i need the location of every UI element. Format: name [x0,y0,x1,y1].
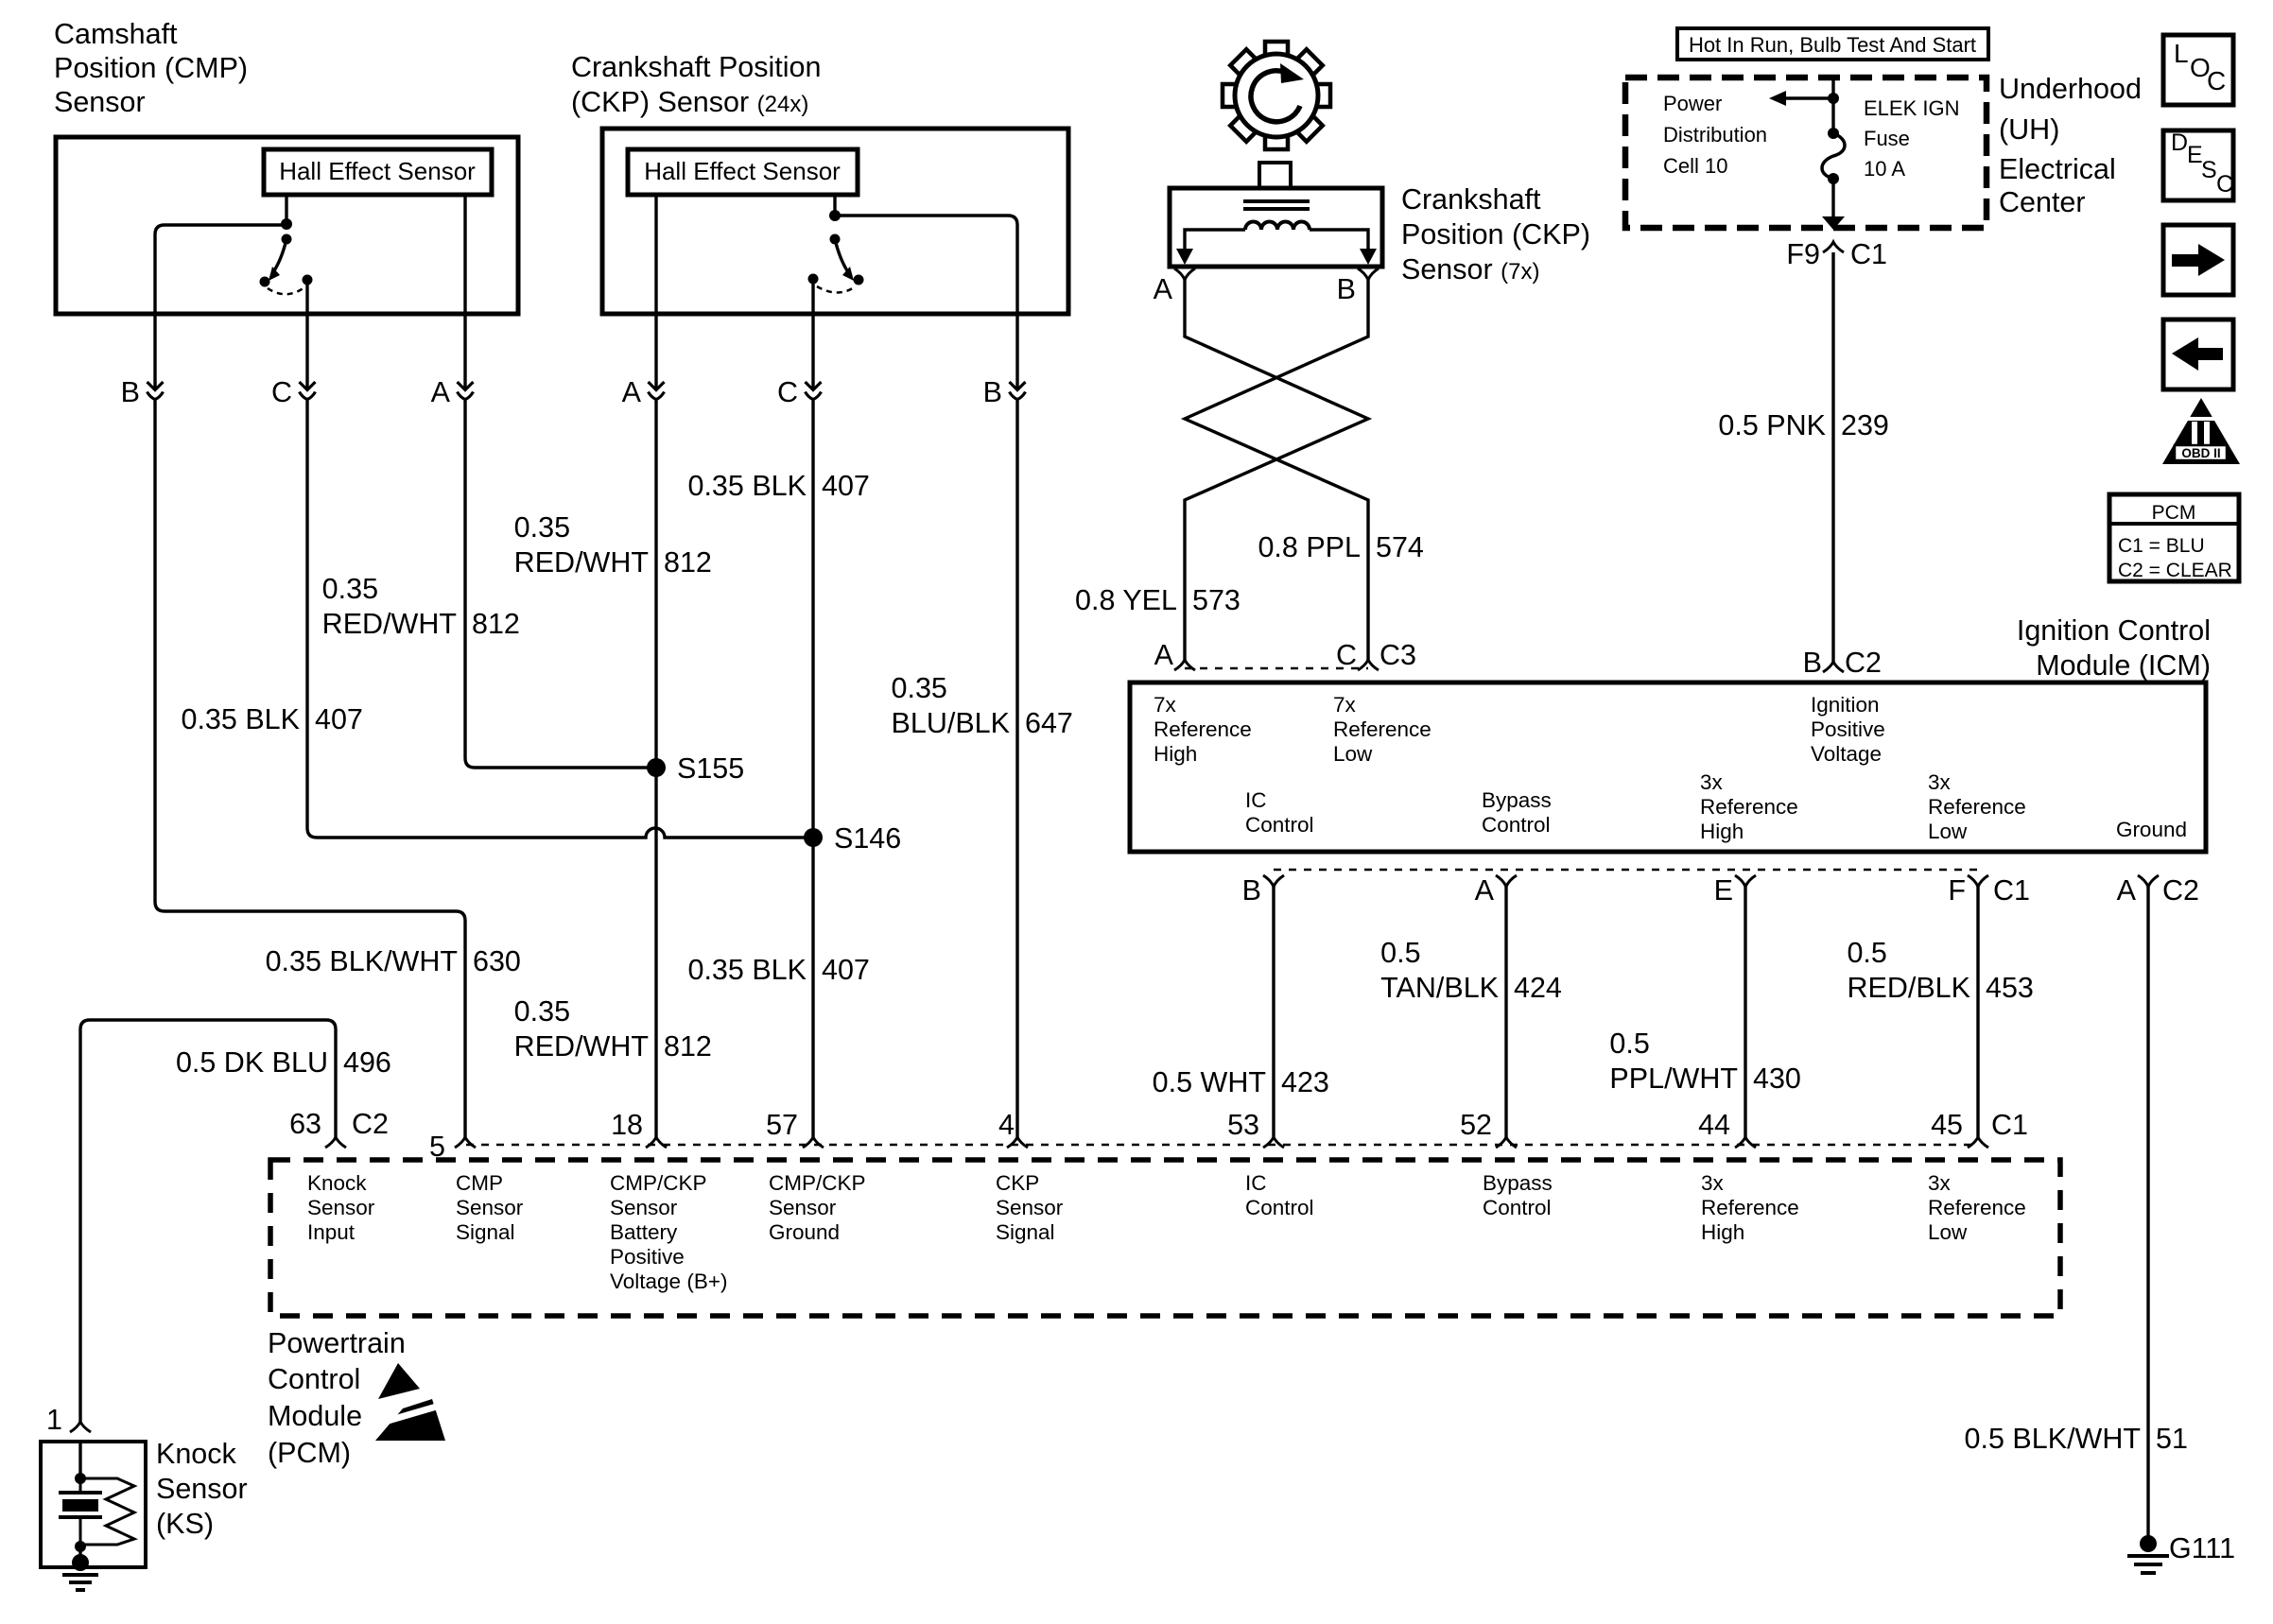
svg-text:Hot In Run, Bulb Test And Star: Hot In Run, Bulb Test And Start [1689,33,1976,57]
wire 630 BLK/WHT (CMP B to PCM 5) [155,400,465,1138]
svg-text:0.5 DK BLU: 0.5 DK BLU [176,1046,328,1079]
svg-text:57: 57 [766,1109,798,1141]
KS ground symbol [62,1573,98,1577]
wire 573 YEL (7x A) [1185,280,1368,660]
svg-text:0.35: 0.35 [514,995,570,1028]
CKP pin B connector [1010,382,1026,390]
svg-text:C1: C1 [1991,1109,2028,1141]
CKP 7x reluctor gear teeth [1265,42,1288,56]
node CMP switch contact right [303,275,313,285]
svg-text:C1: C1 [1993,874,2030,907]
ICM pin E bottom [1735,875,1756,887]
svg-text:(CKP) Sensor (24x): (CKP) Sensor (24x) [571,86,808,118]
wire hall to switch (CKP) [833,195,836,211]
svg-text:C: C [271,376,292,408]
wire 647 BLU/BLK (CKP B to PCM 4) [1015,400,1018,1138]
svg-text:C1 = BLU: C1 = BLU [2118,535,2205,557]
svg-text:S: S [2201,157,2217,183]
svg-text:F: F [1948,874,1966,907]
wire fuse to connector [1831,179,1834,216]
svg-text:812: 812 [472,608,520,640]
svg-text:Electrical: Electrical [1999,153,2116,185]
crankshaft position sensor CKP box [602,129,1068,314]
svg-text:G111: G111 [2169,1532,2235,1564]
svg-text:(UH): (UH) [1999,113,2059,146]
svg-text:C2: C2 [352,1108,389,1140]
svg-text:Knock: Knock [156,1438,237,1470]
svg-text:A: A [1154,273,1173,305]
svg-text:C2: C2 [1845,647,1882,679]
wire CMP pin A upper [463,195,466,389]
svg-text:A: A [1154,639,1174,671]
svg-text:630: 630 [473,945,521,977]
svg-text:(PCM): (PCM) [268,1437,351,1469]
svg-text:PCM: PCM [2152,502,2196,524]
svg-text:0.35 BLK/WHT: 0.35 BLK/WHT [266,945,458,977]
svg-text:63: 63 [289,1108,321,1140]
CKP 7x wire left [1185,230,1245,250]
CKP 7x wire right [1310,230,1368,250]
wire hall to switch (CMP) [285,195,287,219]
svg-text:Module: Module [268,1400,362,1432]
CKP 7x coil [1245,222,1310,231]
svg-text:C2: C2 [2162,874,2199,907]
svg-text:RED/WHT: RED/WHT [514,546,649,579]
CKP pin C connector [806,382,822,390]
svg-text:Powertrain: Powertrain [268,1327,406,1359]
PCM connector dashed line C1 [466,1144,1978,1147]
svg-text:C3: C3 [1379,639,1416,671]
CMP switch dashed arc [268,287,304,294]
svg-text:Crankshaft: Crankshaft [1401,183,1541,216]
Hot In Run Bulb Test And Start box [1677,28,1988,60]
svg-text:C: C [777,376,798,408]
svg-text:812: 812 [664,546,712,579]
svg-text:Sensor: Sensor [54,86,146,118]
svg-text:0.35 BLK: 0.35 BLK [688,954,807,986]
svg-text:0.35: 0.35 [514,511,570,544]
node S155 [647,758,666,777]
node fuse feed junction [1828,93,1839,104]
CMP pin C connector [300,382,316,390]
svg-text:L: L [2174,39,2189,68]
svg-text:18: 18 [611,1109,643,1141]
svg-text:A: A [431,376,451,408]
svg-text:496: 496 [343,1046,391,1079]
svg-text:812: 812 [664,1030,712,1063]
node KS top junction [75,1473,86,1484]
wire CMP junction to pin B [155,225,286,389]
KS resistor [80,1478,134,1545]
svg-text:RED/BLK: RED/BLK [1847,972,1970,1004]
CKP 7x rotation arrow [1251,71,1300,122]
knock sensor KS box [41,1442,146,1567]
node CKP switch junction [829,210,841,221]
CMP pin A connector [458,382,474,390]
svg-text:574: 574 [1376,531,1424,563]
svg-text:IgnitionPositiveVoltage: IgnitionPositiveVoltage [1811,693,1885,766]
wire 453 RED/BLK (ICM F to PCM 45) [1976,887,1979,1137]
svg-text:0.8 PPL: 0.8 PPL [1258,531,1361,563]
svg-text:0.5 WHT: 0.5 WHT [1153,1066,1266,1098]
node CMP switch junction [281,218,292,230]
ICM pin B bottom [1263,875,1284,887]
svg-text:45: 45 [1931,1109,1963,1141]
svg-text:B: B [1337,273,1356,305]
ICM pin A C2 bottom [2138,875,2159,887]
svg-text:51: 51 [2156,1423,2188,1455]
PCM legend box [2109,494,2239,581]
svg-text:647: 647 [1025,707,1073,739]
DESC icon [2163,130,2233,200]
CKP 7x core lines [1243,199,1310,203]
svg-text:44: 44 [1698,1109,1730,1141]
crankshaft position sensor 7x box [1170,188,1382,267]
svg-text:4: 4 [998,1109,1015,1141]
svg-text:573: 573 [1192,584,1241,616]
wire CKP pin A upper [654,195,657,389]
svg-text:Hall Effect Sensor: Hall Effect Sensor [644,157,841,185]
svg-text:A: A [2117,874,2137,907]
node KS bottom junction [75,1541,86,1552]
svg-text:Hall Effect Sensor: Hall Effect Sensor [279,157,476,185]
wire 51 BLK/WHT (ICM A to G111) [2146,887,2149,1536]
svg-text:C2 = CLEAR: C2 = CLEAR [2118,560,2232,581]
svg-text:407: 407 [822,470,870,502]
powertrain control module PCM dashed box [270,1160,2060,1316]
wire 574 PPL (7x B) [1185,280,1368,660]
node CKP switch contact right [854,275,864,285]
node CMP switch contact left [260,277,270,287]
wire 239 PNK (fuse to ICM B) [1831,252,1834,662]
svg-text:424: 424 [1514,972,1562,1004]
CMP pin B connector [147,382,164,390]
CKP pin A connector [649,382,665,390]
wire 496 DK BLU (KS to PCM 63) [80,1020,336,1422]
fuse ELEK IGN F9 [1828,128,1839,139]
svg-text:S155: S155 [677,752,744,785]
svg-text:Ignition Control: Ignition Control [2017,614,2211,647]
svg-text:A: A [622,376,642,408]
svg-text:E: E [1714,874,1733,907]
svg-text:Underhood: Underhood [1999,73,2142,105]
wire fuse feed [1831,78,1834,129]
connector F9 C1 [1823,242,1844,252]
svg-text:RED/WHT: RED/WHT [514,1030,649,1063]
wire 424 TAN/BLK (ICM A to PCM 52) [1504,887,1507,1137]
svg-text:A: A [1475,874,1495,907]
svg-text:S146: S146 [834,822,901,855]
svg-text:407: 407 [315,703,363,735]
svg-text:TAN/BLK: TAN/BLK [1380,972,1499,1004]
svg-text:0.35 BLK: 0.35 BLK [182,703,301,735]
LOC icon [2163,35,2233,105]
wire 407 BLK (CKP C to PCM 57) [811,400,814,1138]
node CMP switch pivot [282,234,292,245]
svg-text:Sensor (7x): Sensor (7x) [1401,253,1539,285]
camshaft position sensor CMP box [56,137,518,314]
arrow left icon [2163,320,2233,389]
svg-text:52: 52 [1460,1109,1492,1141]
ignition control module ICM box [1130,682,2206,852]
arrow right icon [2163,225,2233,295]
svg-text:453: 453 [1986,972,2034,1004]
svg-text:53: 53 [1227,1109,1259,1141]
KS wire top [78,1442,81,1475]
svg-text:BypassControl: BypassControl [1482,788,1552,837]
svg-text:B: B [1242,874,1261,907]
wire 812 RED/WHT (CMP A to S155) [465,400,649,769]
svg-text:Ground: Ground [2116,818,2187,841]
svg-text:Sensor: Sensor [156,1473,248,1505]
node S146 [804,828,823,847]
svg-text:PPL/WHT: PPL/WHT [1609,1063,1738,1095]
ESD symbol [378,1363,420,1399]
svg-text:B: B [983,376,1002,408]
svg-text:Position (CKP): Position (CKP) [1401,218,1590,251]
svg-text:C: C [2216,171,2233,198]
svg-text:0.35: 0.35 [892,672,947,704]
CKP 7x reluctor gear ring [1235,54,1318,137]
svg-text:0.35 BLK: 0.35 BLK [688,470,807,502]
svg-text:F9: F9 [1786,238,1820,270]
CMP switch arm [273,239,286,272]
node CKP switch contact left [808,274,819,285]
ground G111 [2140,1535,2157,1552]
svg-text:BypassControl: BypassControl [1483,1171,1553,1219]
ICM pin F C1 bottom [1968,875,1988,887]
KS wire bottom [78,1546,81,1560]
svg-text:C1: C1 [1850,238,1887,270]
svg-text:Camshaft: Camshaft [54,18,178,50]
svg-text:1: 1 [46,1404,62,1436]
OBD II triangle [2162,398,2240,464]
ICM bottom connector dashed line [1274,869,1978,872]
underhood UH electrical center dashed box [1625,78,1987,228]
svg-text:Control: Control [268,1363,360,1395]
svg-text:OBD II: OBD II [2181,446,2220,460]
wire CKP junction to pin B [835,216,1017,389]
ICM connector C3 dashed line [1185,667,1368,670]
CKP 7x sensor stem [1259,163,1291,188]
CKP hall effect sensor box [628,149,858,195]
svg-text:(KS): (KS) [156,1508,214,1540]
node KS ground dot [72,1554,89,1571]
wire 430 PPL/WHT (ICM E to PCM 44) [1744,887,1746,1137]
svg-text:0.35: 0.35 [322,573,378,605]
wire CKP pin C upper [811,279,814,389]
CMP hall effect sensor box [264,149,492,195]
svg-text:Module (ICM): Module (ICM) [2036,649,2211,682]
svg-text:D: D [2171,130,2188,156]
wire CMP pin C upper [305,280,308,389]
wire 407 BLK (CMP C to S146) [307,400,806,838]
svg-text:C: C [1336,639,1357,671]
svg-text:423: 423 [1281,1066,1329,1098]
CKP switch dashed arc [817,286,856,293]
power distribution arrow [1784,96,1833,100]
svg-text:0.5 PNK: 0.5 PNK [1718,409,1826,441]
KS pin 1 [70,1422,91,1432]
node CKP switch pivot [830,234,841,245]
svg-text:0.5 BLK/WHT: 0.5 BLK/WHT [1965,1423,2141,1455]
svg-text:RED/WHT: RED/WHT [322,608,457,640]
svg-text:B: B [1803,647,1822,679]
CKP 7x pin B [1358,268,1379,280]
svg-text:0.8 YEL: 0.8 YEL [1075,584,1177,616]
wire 423 WHT (ICM B to PCM 53) [1272,887,1275,1137]
svg-text:C: C [2207,66,2226,95]
svg-text:407: 407 [822,954,870,986]
svg-text:0.5: 0.5 [1609,1028,1649,1060]
svg-text:0.5: 0.5 [1847,937,1886,969]
svg-text:Center: Center [1999,186,2086,218]
svg-text:Crankshaft Position: Crankshaft Position [571,51,821,83]
svg-text:430: 430 [1753,1063,1801,1095]
svg-text:B: B [121,376,140,408]
svg-text:239: 239 [1841,409,1889,441]
svg-text:Position (CMP): Position (CMP) [54,52,248,84]
KS capacitor [79,1478,82,1493]
svg-text:BLU/BLK: BLU/BLK [892,707,1010,739]
CKP 7x pin A [1174,268,1195,280]
ICM pin A bottom [1496,875,1517,887]
wire 812 RED/WHT (CKP A to PCM 18) [654,400,657,1138]
svg-text:0.5: 0.5 [1380,937,1420,969]
CKP switch arm [835,239,848,272]
